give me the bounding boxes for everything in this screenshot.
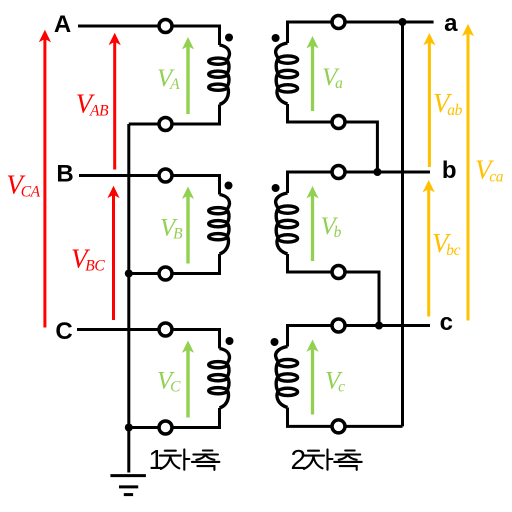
svg-text:a: a: [444, 10, 458, 37]
svg-text:b: b: [442, 157, 457, 184]
svg-text:c: c: [440, 309, 453, 336]
svg-text:C: C: [55, 318, 72, 345]
svg-text:B: B: [56, 160, 73, 187]
svg-text:1: 1: [149, 444, 165, 475]
svg-text:2: 2: [291, 444, 307, 475]
svg-text:A: A: [54, 11, 71, 38]
